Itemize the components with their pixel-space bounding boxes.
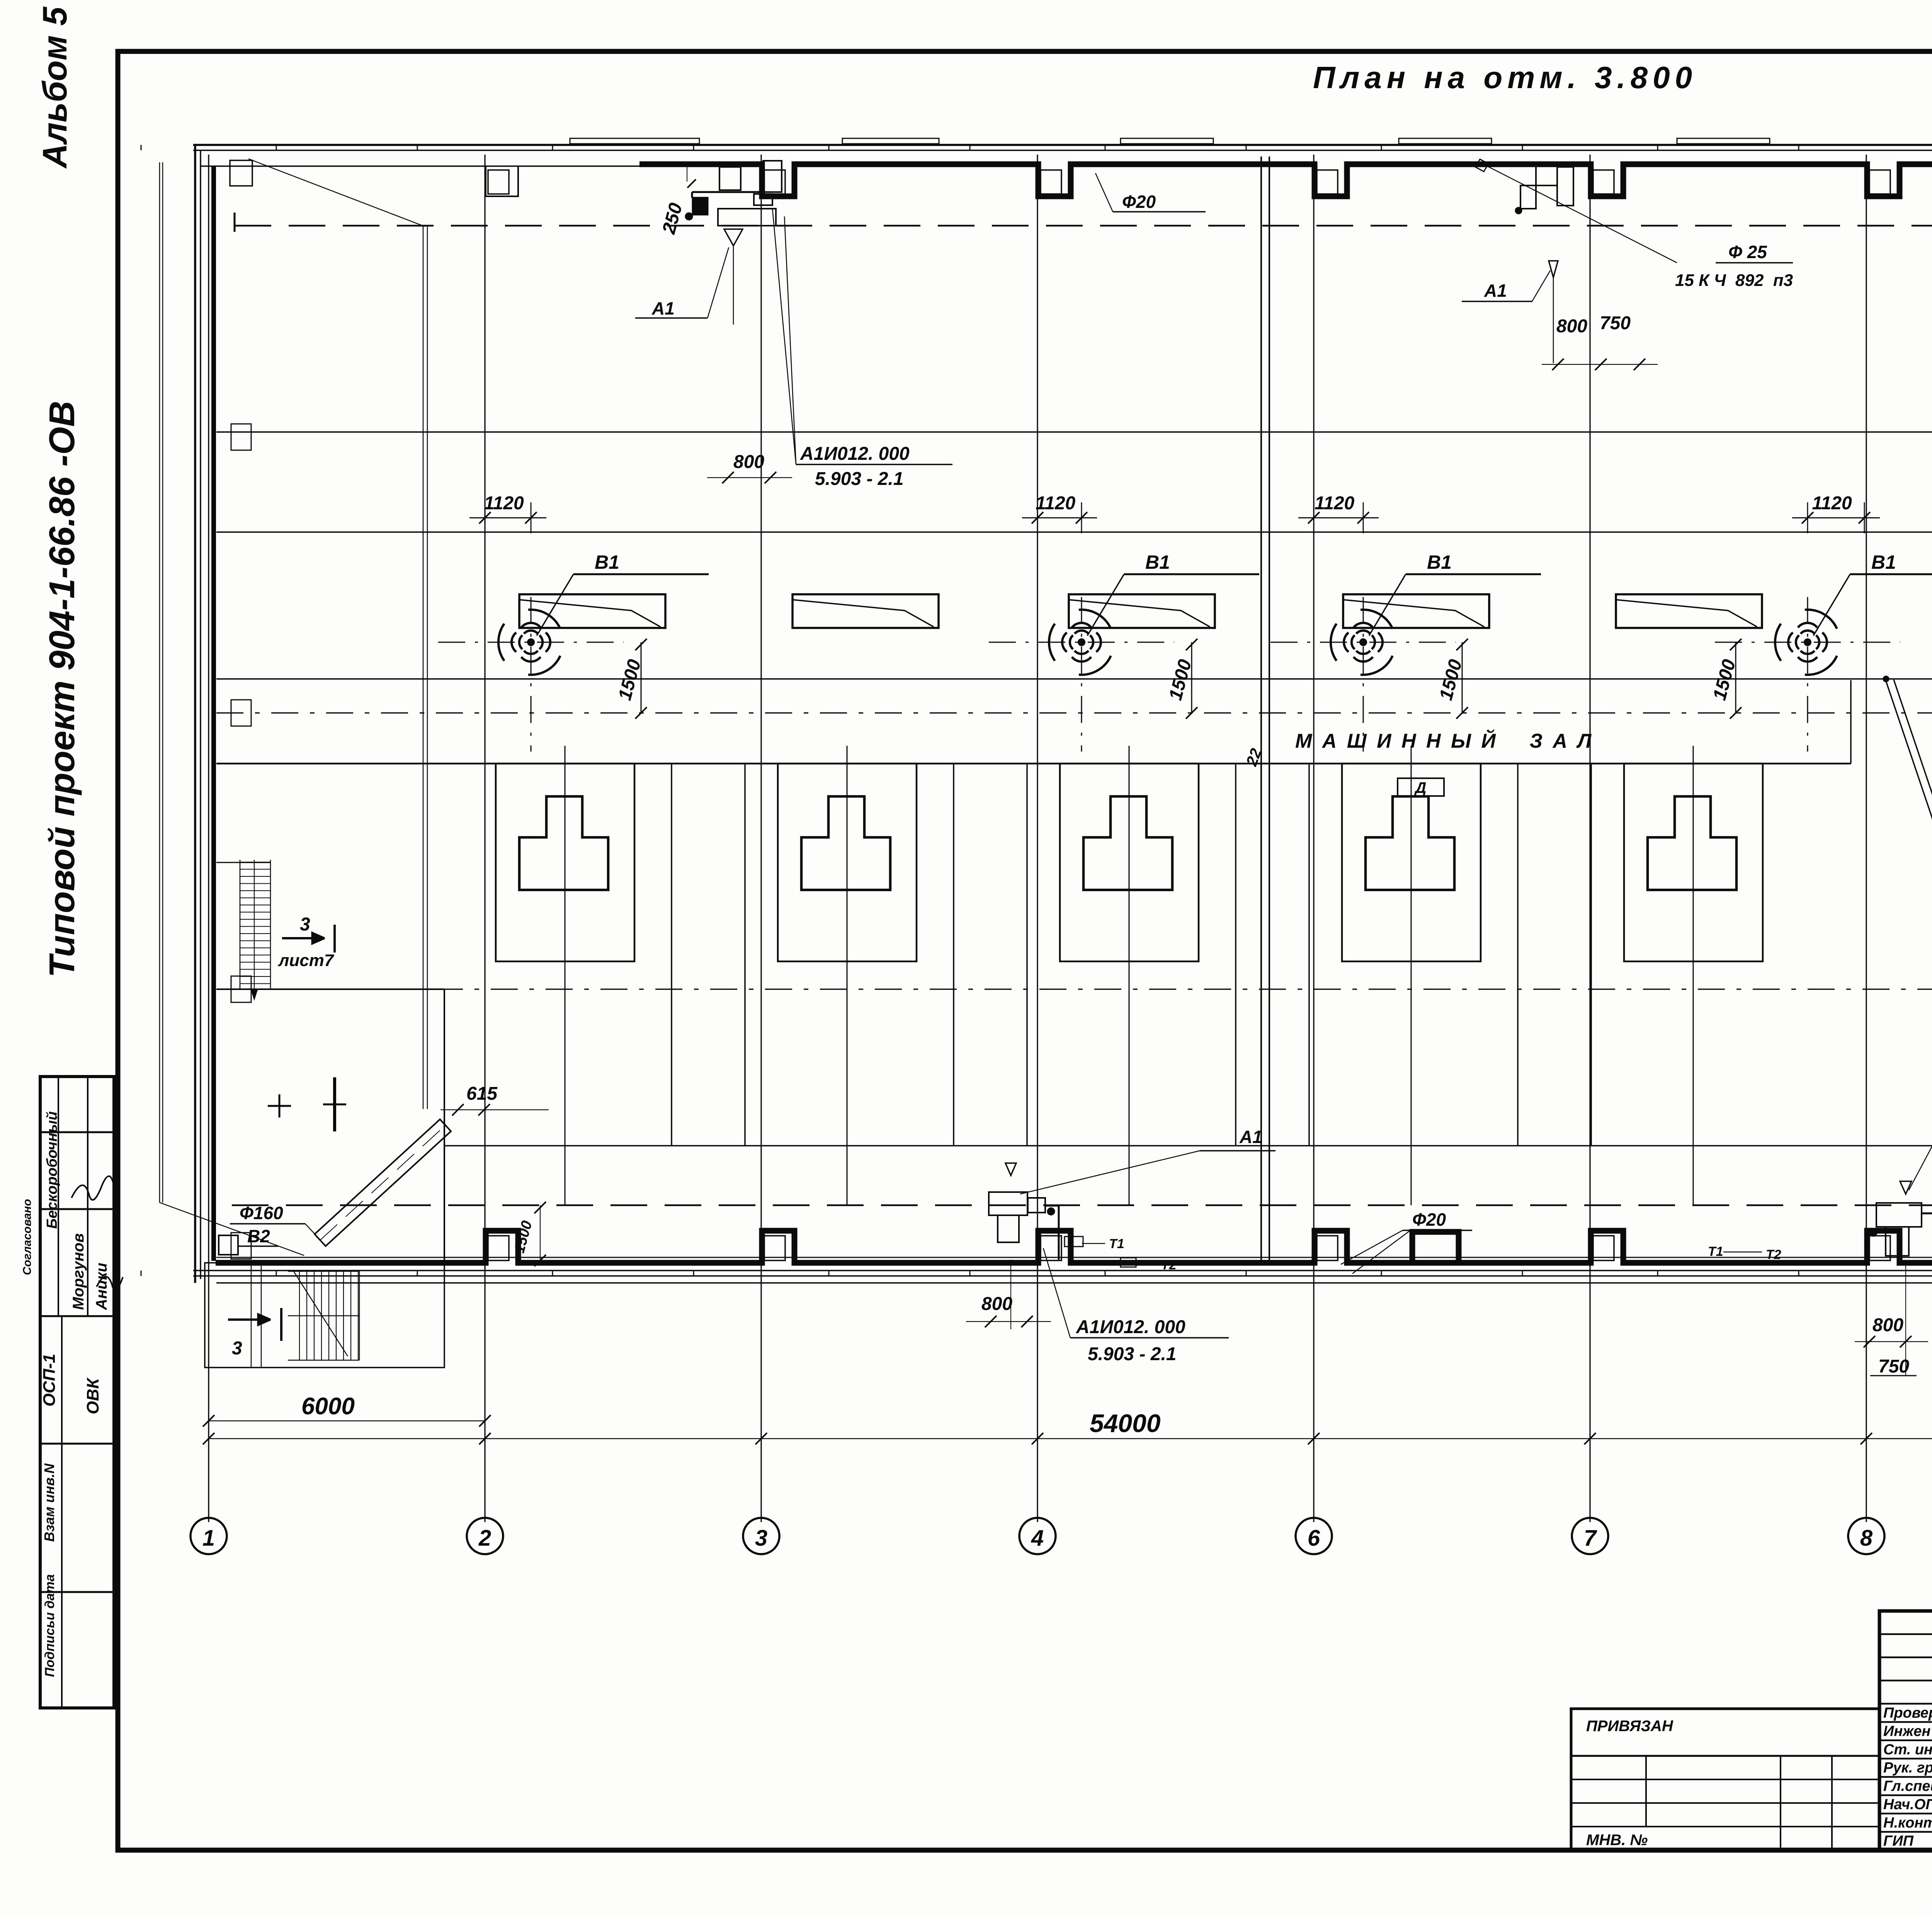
column axis vertical lines	[208, 155, 209, 1522]
svg-text:В1: В1	[595, 551, 619, 573]
fan B1-3	[1270, 597, 1456, 752]
foundation block M4	[1366, 796, 1454, 890]
hall walkway line y1118	[216, 431, 1932, 433]
svg-text:Т2: Т2	[1766, 1247, 1781, 1262]
svg-text:ГИП: ГИП	[1883, 1833, 1914, 1849]
svg-text:800: 800	[981, 1294, 1012, 1314]
svg-text:800: 800	[1872, 1315, 1903, 1335]
svg-text:6: 6	[1308, 1526, 1320, 1551]
left wall heavy pipe line	[211, 166, 216, 1261]
svg-text:3: 3	[232, 1338, 242, 1359]
machine axis line M1	[565, 746, 566, 1205]
svg-text:5.903 - 2.1: 5.903 - 2.1	[1088, 1344, 1177, 1364]
svg-text:План на отм. 3.800: План на отм. 3.800	[1313, 60, 1697, 95]
svg-text:2: 2	[478, 1526, 491, 1551]
section mark 3 bottom	[280, 1308, 282, 1341]
svg-text:Н.контр: Н.контр	[1883, 1815, 1932, 1831]
top wall heavy pipe line with pilaster jogs	[639, 164, 1932, 196]
triangle bottom-right unit	[1900, 1181, 1912, 1194]
svg-text:Моргунов: Моргунов	[70, 1233, 87, 1310]
louver at 4182	[1616, 594, 1762, 628]
svg-text:15 К Ч 892 п3: 15 К Ч 892 п3	[1675, 271, 1793, 290]
left wall thin lines	[194, 145, 196, 1283]
foundation pit M3	[1060, 764, 1199, 961]
bottom wall heavy pipe line with pilaster jogs	[216, 1231, 1932, 1263]
svg-text:МНВ. №: МНВ. №	[1586, 1832, 1648, 1849]
porch stairs hatch	[299, 1271, 300, 1360]
unit A1 bottom-left	[989, 1192, 1027, 1215]
svg-text:В1: В1	[1871, 551, 1896, 573]
svg-text:1120: 1120	[1315, 493, 1355, 514]
foundation block M5	[1648, 796, 1736, 890]
bottom wall thin lines	[193, 1270, 1932, 1271]
mid-bay door notch bottom wall	[1412, 1232, 1459, 1263]
svg-text:Нач.ОПБ: Нач.ОПБ	[1883, 1796, 1932, 1813]
building outer walls : top thin lines	[193, 144, 1932, 146]
bay partition lines	[1235, 764, 1236, 1146]
hall walkway line y1757	[216, 678, 1932, 680]
hall bottom edge y1976	[216, 763, 1851, 765]
svg-text:1120: 1120	[484, 493, 524, 514]
svg-text:Альбом 5: Альбом 5	[36, 7, 74, 169]
triangle A1 second	[1549, 261, 1558, 277]
svg-text:Ф 25: Ф 25	[1728, 242, 1767, 262]
svg-text:Гл.спец: Гл.спец	[1883, 1778, 1932, 1795]
svg-text:ПРИВЯЗАН: ПРИВЯЗАН	[1586, 1718, 1673, 1735]
detail callout D	[1398, 778, 1444, 796]
bottom-left porch outline	[205, 1263, 444, 1368]
foundation block M2	[801, 796, 890, 890]
outdoor pipe left	[159, 162, 160, 1203]
louver at 2051	[793, 594, 939, 628]
louver at 1344	[519, 594, 665, 628]
svg-text:750: 750	[1600, 313, 1631, 333]
louver at 3476	[1343, 594, 1489, 628]
bottom axis circles	[190, 1518, 227, 1554]
dim 1500 fan 4	[1735, 642, 1736, 713]
column boxes bottom wall	[488, 1236, 509, 1260]
top-left door diagonal	[248, 159, 425, 226]
bay partition lines	[671, 764, 672, 1146]
svg-text:615: 615	[466, 1084, 498, 1104]
small box left of B2	[219, 1235, 238, 1255]
louver at 2766	[1069, 594, 1215, 628]
svg-text:1: 1	[202, 1526, 215, 1551]
dims 1120 over fans	[469, 517, 546, 519]
svg-text:А1: А1	[1239, 1127, 1262, 1147]
unit A1 bottom-right	[1876, 1203, 1922, 1227]
benchmark crosses	[268, 1094, 291, 1118]
dashed pipe axis bottom y3119	[232, 1204, 1932, 1206]
dashed pipe axis top y584	[235, 225, 1932, 227]
left annex wall	[216, 988, 444, 990]
svg-text:Аники: Аники	[93, 1263, 110, 1310]
svg-text:800: 800	[1556, 316, 1587, 337]
svg-text:В1: В1	[1145, 551, 1170, 573]
thin pilaster notch axis 2 top	[486, 166, 518, 196]
svg-text:Рук. гр.: Рук. гр.	[1883, 1760, 1932, 1776]
machine axis line M4	[1411, 746, 1412, 1205]
hall walkway line y1377	[216, 531, 1932, 533]
foundation pit M4	[1342, 764, 1481, 961]
svg-text:Т1: Т1	[1708, 1244, 1723, 1259]
svg-text:1120: 1120	[1036, 493, 1076, 514]
dim 1500 fan 2	[1191, 642, 1192, 713]
dim 6000 bottom-left	[209, 1420, 485, 1422]
unit A1 top-second	[1536, 162, 1557, 185]
svg-text:А1: А1	[1484, 281, 1507, 301]
unit A1 top-left	[718, 209, 776, 226]
column boxes top wall	[488, 170, 509, 194]
svg-text:А1И012. 000: А1И012. 000	[800, 444, 910, 464]
fan B1-4	[1715, 597, 1900, 752]
machine axis line M5	[1693, 746, 1694, 1205]
svg-text:Ф20: Ф20	[1122, 192, 1156, 212]
step up and diagonals right of hall	[1850, 680, 1852, 764]
svg-text:А1И012. 000: А1И012. 000	[1076, 1317, 1185, 1337]
foundation pit M2	[778, 764, 917, 961]
foundation block M1	[519, 796, 608, 890]
svg-text:4: 4	[1031, 1526, 1044, 1551]
svg-text:Т2: Т2	[1161, 1258, 1177, 1272]
bay partition lines	[953, 764, 954, 1146]
svg-text:Ф20: Ф20	[1412, 1209, 1446, 1230]
svg-text:8: 8	[1860, 1526, 1873, 1551]
fan B1-1	[438, 597, 624, 752]
title block	[1879, 1611, 1932, 1850]
svg-text:ОВК: ОВК	[83, 1377, 102, 1414]
svg-text:Провер.: Провер.	[1883, 1705, 1932, 1721]
svg-text:лист7: лист7	[278, 951, 335, 970]
svg-text:ОСП-1: ОСП-1	[40, 1354, 59, 1407]
svg-text:В2: В2	[247, 1226, 270, 1246]
machine axis line M3	[1129, 746, 1130, 1205]
foundation pit M1	[496, 764, 634, 961]
svg-text:Д: Д	[1414, 779, 1427, 796]
window band segments top wall	[570, 138, 699, 144]
svg-text:3: 3	[300, 914, 310, 935]
bay partition lines	[1517, 764, 1519, 1146]
svg-text:Ст. инж: Ст. инж	[1883, 1742, 1932, 1758]
svg-text:6000: 6000	[301, 1393, 355, 1420]
left stamp strip	[40, 1077, 114, 1708]
svg-text:750: 750	[1878, 1356, 1909, 1377]
svg-text:1120: 1120	[1812, 493, 1852, 514]
svg-text:54000: 54000	[1090, 1409, 1161, 1437]
machine axis line M2	[847, 746, 848, 1205]
interior stairs upper-left	[240, 860, 241, 989]
symbol triangle A1	[724, 229, 743, 246]
duct drop pair x1095	[423, 226, 424, 1109]
foundation block M3	[1083, 796, 1172, 890]
svg-text:7: 7	[1584, 1526, 1597, 1551]
fan B1-2	[989, 597, 1174, 752]
svg-text:Согласовано: Согласовано	[21, 1199, 34, 1275]
dim 1500 fan 3	[1462, 642, 1463, 713]
svg-text:М А Ш И Н Н Ы Й З А Л: М А Ш И Н Н Ы Й З А Л	[1295, 729, 1594, 752]
expansion joint double line	[1260, 156, 1262, 1263]
svg-text:5.903 - 2.1: 5.903 - 2.1	[815, 469, 904, 489]
foundation pit M5	[1624, 764, 1763, 961]
dim 1500 fan 1	[641, 642, 642, 713]
privyazan table	[1571, 1709, 1879, 1850]
dim 54000	[209, 1438, 1932, 1439]
svg-text:Типовой проект 904-1-66.86 -ОВ: Типовой проект 904-1-66.86 -ОВ	[42, 401, 82, 978]
walkway bottom y2965	[444, 1145, 1932, 1146]
column boxes left wall	[231, 424, 251, 450]
B2 duct diagonal	[315, 1119, 451, 1246]
svg-text:3: 3	[755, 1526, 767, 1551]
svg-text:Ф160: Ф160	[240, 1203, 283, 1223]
top wall thin inner line left part	[201, 165, 639, 167]
stairs room top line	[216, 862, 270, 863]
svg-text:А1: А1	[651, 298, 675, 318]
svg-text:Взам инв.N: Взам инв.N	[41, 1463, 57, 1542]
svg-text:800: 800	[733, 452, 764, 472]
svg-text:Инжен: Инжен	[1883, 1723, 1930, 1739]
triangle bottom-left unit	[1005, 1163, 1016, 1175]
section mark 3 upper-left	[333, 925, 336, 953]
svg-text:Т1: Т1	[1109, 1237, 1124, 1251]
svg-text:Подписьи дата: Подписьи дата	[43, 1574, 57, 1677]
svg-text:В1: В1	[1427, 551, 1452, 573]
svg-text:Бескоробочный: Бескоробочный	[44, 1111, 60, 1229]
